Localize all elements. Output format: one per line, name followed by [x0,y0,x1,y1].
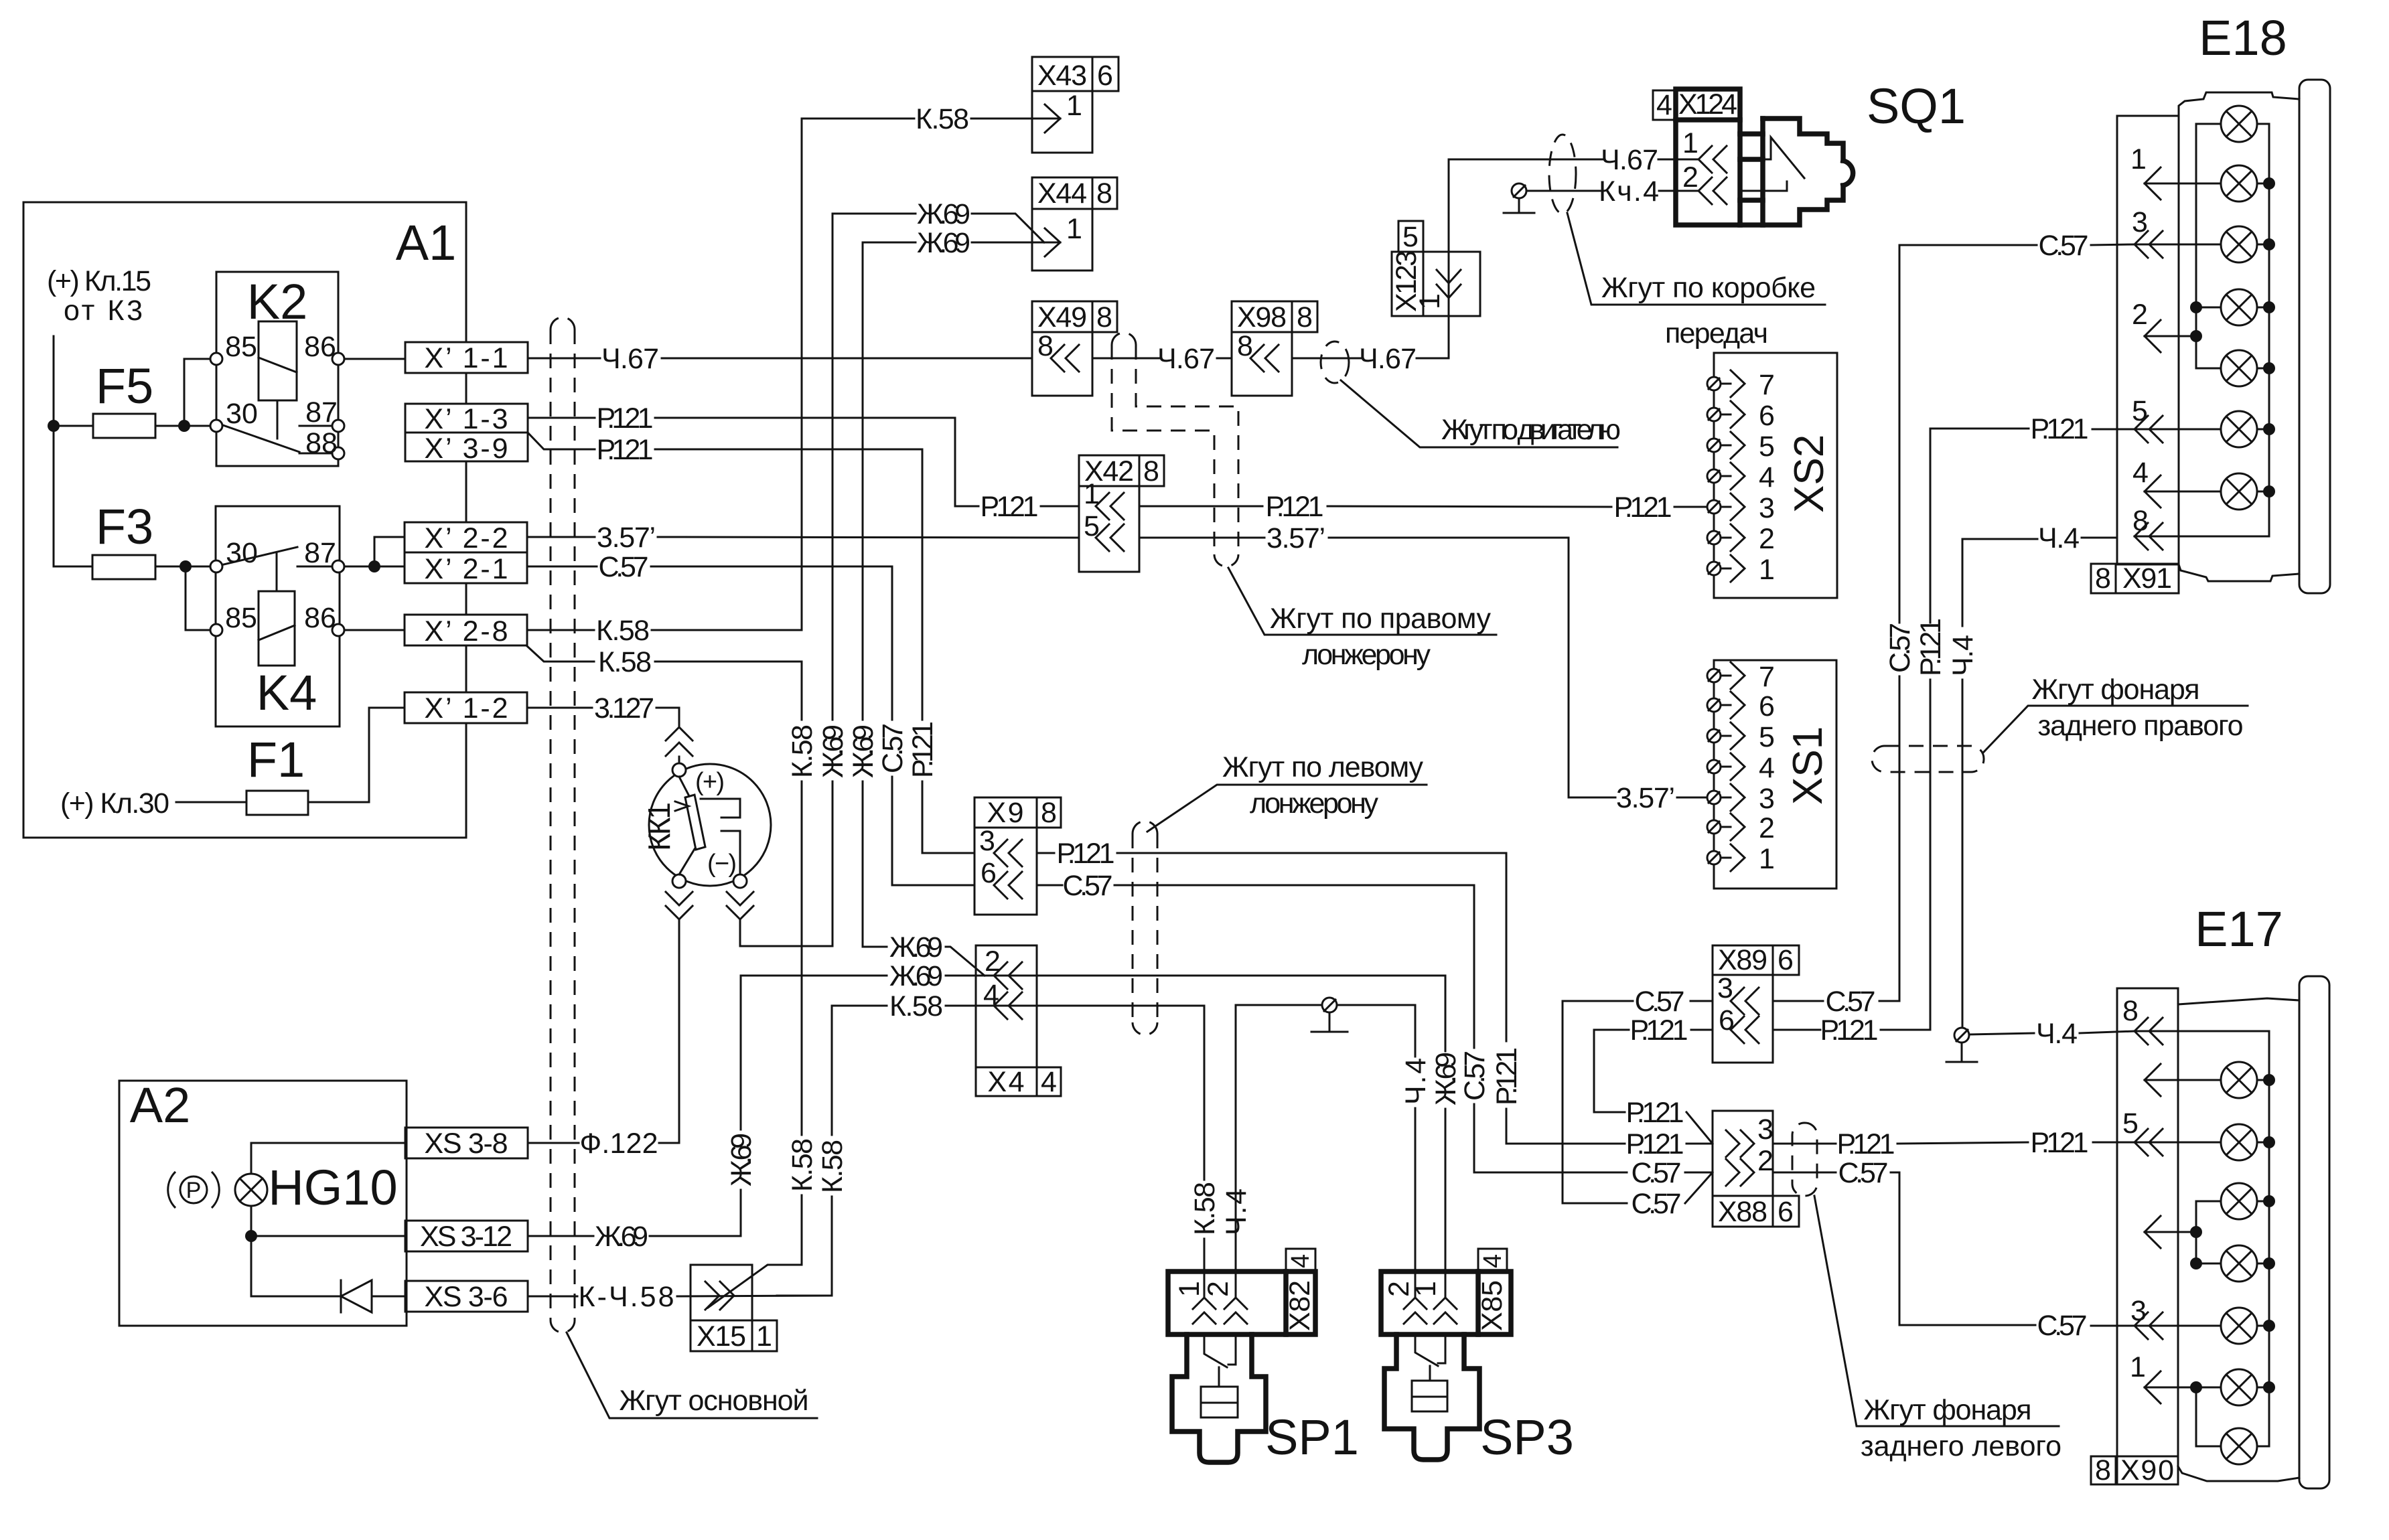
svg-text:1: 1 [1759,554,1775,586]
node dot feed/F5 [48,420,60,432]
SP1 body [1172,1334,1266,1462]
block A1 outline [23,202,466,838]
wire 3.127 from X'1-2 [527,707,592,709]
svg-text:A1: A1 [396,215,457,271]
connector XS1 [1714,660,1836,889]
E17 lamp 3 [2221,1183,2257,1219]
connector X44 [1032,177,1092,209]
svg-text:87: 87 [304,537,336,569]
svg-text:Ч.67: Ч.67 [1601,144,1658,176]
wire lamp bottom [250,1206,252,1296]
svg-text:XS 3-6: XS 3-6 [425,1281,508,1313]
XS2 pin 7 [1707,369,1775,401]
svg-text:X’ 2-2: X’ 2-2 [425,522,508,554]
svg-text:2: 2 [1202,1281,1234,1297]
svg-text:Р.121: Р.121 [907,721,939,778]
XS2 pin 3 [1707,492,1775,524]
wire R.121 X9 to X88 riser [1037,852,1054,854]
svg-text:Р.121: Р.121 [2031,1127,2089,1159]
svg-text:88: 88 [305,427,338,459]
svg-text:(+) Кл.30: (+) Кл.30 [60,787,169,820]
KK1 top terminal [672,763,686,777]
ground symbol rear lamps [1954,1028,1969,1043]
svg-text:(+): (+) [695,768,725,796]
E17 lens [2299,976,2329,1488]
svg-text:Ф.122: Ф.122 [580,1128,658,1160]
E18 lamp 3 [2221,226,2257,262]
svg-text:Ж.69: Ж.69 [725,1133,757,1186]
E17 mid arrow [2145,1216,2161,1248]
svg-text:X89: X89 [1718,944,1767,976]
svg-text:Ч.4: Ч.4 [1947,635,1979,676]
relay K2 coil [259,321,297,400]
connector X9 [974,797,1037,828]
wire Ch.67 X49 to X98 [1092,358,1161,360]
svg-text:X124: X124 [1678,88,1737,121]
wire R.121 into X88 pin3 [1506,1143,1625,1145]
svg-text:Жгут по левому: Жгут по левому [1222,751,1424,783]
fuse F1 [246,791,308,815]
svg-text:SP1: SP1 [1265,1409,1359,1465]
svg-text:К.58: К.58 [889,990,943,1022]
connector X'1-1 [405,342,528,373]
wire R.121 X89 left riser to X88 [1691,1029,1713,1031]
leader Zhgut po levomu lonzheronu [1147,785,1427,832]
wire F5 to relay 30 [155,425,210,427]
XS1 pin 4 [1707,752,1775,784]
svg-text:С.57: С.57 [2037,1310,2088,1342]
svg-text:3.127: 3.127 [594,692,654,724]
svg-text:X’ 1-2: X’ 1-2 [425,692,508,724]
wire K.58 through X4 to SP1 [946,1006,1204,1180]
XS2 pin 1 [1707,554,1775,586]
E18 left bus [2196,124,2221,368]
wire Zh.69 from XS3-12 [528,1235,593,1237]
svg-text:XS2: XS2 [1786,435,1832,513]
svg-text:Ж.69: Ж.69 [917,227,970,259]
E18 lamp 4 [2221,289,2257,325]
svg-text:4: 4 [1287,1254,1315,1268]
svg-text:С.57: С.57 [2039,230,2089,262]
connector X'2-1 [405,552,527,583]
svg-text:Ч.4: Ч.4 [1220,1188,1252,1235]
leader Zhgut fonarya zadnego levogo [1814,1196,2059,1426]
wire to XS3-12 [251,1235,405,1237]
wire to K2 coil 85 [184,359,210,426]
svg-text:4: 4 [1656,89,1672,121]
wire S.57 X89 left riser to X88 [1690,1000,1713,1002]
svg-text:Ж.69: Ж.69 [889,960,943,992]
svg-text:от К3: от К3 [64,295,143,327]
svg-text:X’ 1-1: X’ 1-1 [425,342,508,374]
svg-text:Р.121: Р.121 [981,491,1039,523]
XS1 pin 3 [1707,783,1775,815]
wire feed left vertical [53,336,55,566]
svg-text:X91: X91 [2122,562,2172,595]
KK1 arrow to strip [675,801,689,811]
svg-text:Р.121: Р.121 [2031,413,2089,445]
wire K4 87 to X'2-1 [344,566,405,568]
svg-text:X88: X88 [1718,1196,1767,1228]
svg-text:X43: X43 [1037,60,1087,92]
wire to K4 85 [186,566,210,630]
svg-text:8: 8 [2122,995,2139,1027]
KK1 bottom-right terminal [733,874,747,888]
SP1 pin chevrons [1193,1298,1216,1324]
svg-text:X44: X44 [1037,177,1087,210]
svg-text:Р.121: Р.121 [1915,618,1947,676]
svg-text:1: 1 [2130,143,2147,175]
E17 lamp arrow top [2145,1064,2161,1096]
svg-text:С.57: С.57 [1063,870,1113,902]
wire branch to X'2-2 [374,537,405,566]
svg-text:XS1: XS1 [1785,726,1831,805]
svg-text:Р.121: Р.121 [1820,1014,1879,1047]
svg-text:SQ1: SQ1 [1867,78,1966,134]
E17 lamp 5 [2221,1308,2257,1344]
KK1 bottom chevrons left [666,892,693,919]
E17 lamp 6 [2221,1369,2257,1405]
svg-text:С.57: С.57 [599,551,649,583]
svg-text:86: 86 [304,331,336,363]
E18 lens [2299,80,2330,593]
pressure sensor SP3 connector X85 [1381,1272,1511,1334]
svg-text:8: 8 [1096,177,1112,210]
connector X'2-8 [405,615,527,645]
svg-text:Ч.4: Ч.4 [1400,1058,1432,1105]
KK1 bottom chevrons right [727,892,753,919]
relay K2 coil link [277,400,279,439]
connector X124 [1653,90,1676,120]
svg-text:(+) Кл.15: (+) Кл.15 [47,265,151,297]
E17 connector column [2117,988,2178,1484]
ground symbol mid [1322,998,1337,1012]
SP3 body [1384,1334,1479,1460]
node dot [245,1230,257,1242]
svg-text:5: 5 [2122,1107,2139,1140]
E18 lamp 7 [2221,473,2257,510]
E18 lamp 6 [2221,411,2257,447]
connector XS3-8 [405,1128,528,1158]
relay K4 contact blade [221,547,297,565]
svg-text:X’ 2-1: X’ 2-1 [425,553,508,585]
X123 chevrons down [1437,270,1461,298]
SP3 internals [1415,1334,1445,1381]
svg-text:Ч.4: Ч.4 [2036,1018,2078,1050]
svg-text:X’ 2-8: X’ 2-8 [425,615,508,647]
svg-text:4: 4 [1759,752,1775,784]
wire 3.57' X42 to XS1 [1139,537,1264,539]
E17 X90 label [2091,1456,2116,1484]
wire S.57 X89 right to E18 [1773,1000,1823,1002]
wire S.57 X9 to X88 riser [1037,884,1062,887]
svg-text:2: 2 [985,945,1001,978]
relay K2 pin stubs 87 88 [299,425,333,427]
harness oval X88 [1792,1123,1817,1196]
leader Zhgut fonarya zadnego pravogo [1984,706,2248,752]
svg-text:К.58: К.58 [596,615,650,647]
leader Zhgut po korobke peredach [1567,213,1825,305]
XS2 pin 2 [1707,523,1775,555]
svg-text:8: 8 [1143,455,1159,487]
relay K2 contact blade [221,425,299,452]
svg-text:8: 8 [1297,301,1313,333]
svg-text:X15: X15 [697,1320,746,1353]
svg-text:Р.121: Р.121 [1057,838,1115,870]
node dot at 85-branch [178,420,190,432]
svg-text:SP3: SP3 [1480,1409,1574,1465]
svg-text:E17: E17 [2195,901,2283,957]
svg-text:1: 1 [1759,843,1775,875]
svg-text:1: 1 [756,1320,772,1353]
harness oval engine [1321,341,1349,383]
switch SQ1 body [1740,134,1763,225]
KK1 contact bracket [701,799,740,874]
harness oval gearbox [1549,135,1576,214]
wire feed to F3 [54,566,92,568]
svg-text:A2: A2 [130,1077,191,1133]
E18 lamp 5 [2221,350,2257,386]
SP1 internals [1204,1334,1236,1387]
svg-text:С.57: С.57 [1635,986,1685,1018]
svg-text:Р.121: Р.121 [597,434,654,466]
svg-text:E18: E18 [2199,10,2287,66]
E18 lamp 1 [2221,106,2257,142]
wire F.122 [528,1142,579,1144]
E18 X91 label [2091,564,2116,593]
XS2 pin 5 [1707,431,1775,463]
connector X'1-3 [405,404,528,433]
wire F3 to K4 30 [155,566,210,568]
connector X98 [1232,301,1292,332]
connector chevrons on 3.127 drop [666,727,693,756]
svg-text:2: 2 [1759,812,1775,844]
wire Ch.67 riser through X123 [1448,159,1450,358]
svg-text:7: 7 [1759,661,1775,693]
svg-text:Р.121: Р.121 [597,402,654,435]
svg-text:С.57: С.57 [1632,1188,1682,1220]
connector X'2-2 [405,522,527,552]
wire S.57 from X'2-1 [527,566,597,568]
svg-text:5: 5 [1759,431,1775,463]
svg-text:5: 5 [1402,221,1419,253]
svg-text:С.57: С.57 [1826,986,1876,1018]
E17 lamp7 link [2196,1387,2221,1446]
svg-text:лонжерону: лонжерону [1302,639,1431,671]
svg-text:5: 5 [1759,721,1775,753]
relay K4 coil link [276,553,278,591]
wire R.121 X88 right to E17 [1773,1143,1836,1145]
svg-text:Р.121: Р.121 [1626,1097,1684,1129]
svg-text:30: 30 [226,537,258,569]
svg-text:4: 4 [1041,1066,1057,1098]
relay K2 terminal circles [210,353,222,365]
svg-text:F5: F5 [96,358,153,414]
XS1 pin 5 [1707,721,1775,753]
svg-text:8: 8 [1096,301,1112,333]
connector X49 [1032,301,1092,332]
left lonzheron dashed sheath [1132,834,1134,1022]
svg-text:Жгут по правому: Жгут по правому [1270,603,1492,635]
connector X43 [1032,57,1092,91]
wire Zh.69 label row to X4 pin2 diag [865,946,887,948]
svg-text:4: 4 [1479,1254,1507,1268]
harness pill right lamp [1872,746,1984,772]
connector X4 [976,945,1037,1067]
relay K4 box [216,506,340,726]
svg-text:2: 2 [2132,299,2148,331]
svg-text:3.57’: 3.57’ [1266,522,1325,554]
svg-text:К.58: К.58 [786,1138,818,1192]
svg-text:2: 2 [1682,161,1698,194]
svg-text:X49: X49 [1037,301,1087,333]
wire Ch.67 from X'1-1 [528,358,600,360]
wire K2 86 to X'1-1 [344,358,405,360]
wire K.58 second from X'2-8 [527,646,594,662]
thermal relay KK1 body [649,764,771,886]
svg-text:К.58: К.58 [598,646,652,678]
wire R.121 from X'3-9 [528,433,595,449]
svg-text:2: 2 [1759,523,1775,555]
E18 connector column [2117,116,2179,564]
svg-text:4: 4 [1759,461,1775,493]
wire S.57 into X88 pin2 [1474,1172,1627,1174]
wire R.121 from X'1-3 [528,417,595,419]
block A2 [119,1081,407,1326]
relay K2 box [216,272,338,466]
connector X15 [691,1265,752,1320]
svg-text:1: 1 [1173,1281,1206,1297]
pressure sensor SP1 connector X82 [1168,1272,1315,1334]
wire KK1 right terminal to Zh.69 riser [740,920,832,946]
svg-text:X85: X85 [1476,1280,1508,1331]
svg-text:86: 86 [304,602,336,634]
svg-text:8: 8 [1041,797,1057,829]
svg-text:К.58: К.58 [916,103,969,135]
XS1 pin 6 [1707,690,1775,722]
svg-text:КК1: КК1 [642,802,676,851]
wire Ch.4 ground to E17 pin8 [1969,1033,2034,1034]
relay K4 terminal circles [210,560,222,572]
svg-text:3.57’: 3.57’ [597,522,656,554]
svg-text:Кч.4: Кч.4 [1599,175,1659,208]
E17 lamp 1 [2221,1062,2257,1098]
connector XS3-6 [405,1281,528,1312]
svg-text:1: 1 [1066,90,1082,122]
svg-text:передач: передач [1665,317,1768,350]
svg-text:30: 30 [226,398,258,430]
connector X88 [1713,1111,1773,1196]
E17 left bus [2196,1201,2221,1263]
svg-text:87: 87 [305,396,338,429]
svg-text:6: 6 [1097,60,1113,92]
Zh.69 riser to X44 wire1 [832,214,834,720]
svg-text:К-Ч.58: К-Ч.58 [579,1281,674,1313]
svg-text:X90: X90 [2120,1454,2174,1486]
svg-text:3.57’: 3.57’ [1616,782,1675,814]
ground symbol gearbox [1512,183,1526,198]
svg-text:1: 1 [1066,213,1082,245]
E17 right bus [2257,1031,2269,1446]
wire Kch.4 to X124 [1526,190,1600,192]
svg-text:Ж.69: Ж.69 [889,931,943,964]
svg-text:X98: X98 [1237,301,1287,333]
wire Ch.4 ground link SP1-SP3 [1236,1005,1321,1298]
lamp HG10 [235,1174,267,1206]
svg-text:X82: X82 [1284,1280,1316,1331]
svg-text:С.57: С.57 [1459,1051,1491,1101]
svg-text:Ч.67: Ч.67 [601,343,659,375]
svg-text:8: 8 [2132,505,2149,537]
svg-text:Р.121: Р.121 [1614,491,1672,524]
svg-text:Ч.4: Ч.4 [2038,522,2080,554]
wire Ch.4 E18 to ground [2082,537,2117,539]
fuse F5 [93,414,155,438]
svg-text:3: 3 [1759,783,1775,815]
svg-text:7: 7 [1759,369,1775,401]
svg-text:X9: X9 [987,797,1024,829]
KK1 bimetal strip [685,795,705,850]
svg-text:85: 85 [225,331,257,363]
svg-text:F1: F1 [247,732,305,787]
connector XS3-12 [405,1221,528,1251]
svg-text:Жгут основной: Жгут основной [620,1385,809,1417]
wire Kl.30 to F1 [176,801,246,803]
svg-text:Р.121: Р.121 [1491,1047,1523,1105]
wire K-Ch.58 through X15 [528,1296,577,1298]
svg-text:Ж.69: Ж.69 [917,198,970,230]
svg-text:К.58: К.58 [1189,1182,1221,1235]
E18 housing outline [2179,92,2299,117]
right lonzheron dashed sheath [1112,345,1214,554]
wire K.58 riser to X4 pin4 [831,1006,833,1135]
E17 lamp 7 [2221,1428,2257,1464]
wire to F5 [54,425,93,427]
handbrake symbol [180,1176,207,1203]
E18 lamp 2 [2221,165,2257,202]
svg-text:6: 6 [1759,400,1775,432]
wire lamp top to XS3-8 [251,1143,405,1174]
svg-text:X’ 3-9: X’ 3-9 [425,433,508,465]
svg-text:Ж.69: Ж.69 [847,724,879,778]
svg-text:заднего правого: заднего правого [2038,710,2244,742]
svg-text:85: 85 [225,602,257,634]
svg-text:С.57: С.57 [877,723,909,773]
relay K4 pin stub 87 [297,566,333,568]
svg-text:F3: F3 [96,499,153,554]
wire KK1 left terminal down to F.122 [678,920,680,1143]
svg-text:1: 1 [1414,293,1446,309]
svg-text:2: 2 [1757,1145,1773,1177]
svg-text:Р.121: Р.121 [1630,1014,1688,1047]
leader Zhgut po dvigatelyu [1341,380,1617,447]
svg-text:Ч.67: Ч.67 [1359,343,1417,375]
svg-text:3: 3 [1757,1113,1773,1146]
svg-text:6: 6 [1778,944,1794,976]
svg-text:5: 5 [1084,510,1100,542]
E17 lamp 2 [2221,1124,2257,1160]
svg-text:K4: K4 [257,665,317,720]
svg-text:1: 1 [1410,1281,1442,1297]
svg-text:6: 6 [1759,690,1775,722]
connector X42 [1079,455,1139,486]
XS2 pin 6 [1707,400,1775,432]
XS1 pin 1 [1707,843,1775,875]
svg-text:HG10: HG10 [268,1160,397,1215]
connector X'1-2 [405,692,527,723]
svg-text:К.58: К.58 [786,724,818,778]
svg-text:К.58: К.58 [816,1140,849,1193]
